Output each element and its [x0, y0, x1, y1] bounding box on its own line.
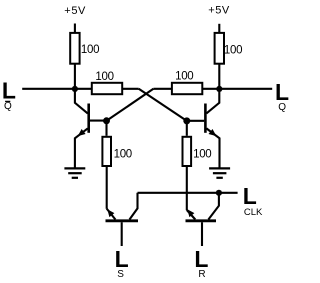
wire Q3 emitter diagonal — [107, 209, 116, 220]
svg-text:100: 100 — [224, 45, 242, 57]
terminal L Q (right output) — [275, 79, 289, 113]
svg-text:100: 100 — [114, 148, 132, 160]
wire Q1 base lead — [90, 120, 107, 122]
wire Q4 collector riser from CLK dot — [208, 193, 219, 220]
svg-text:100: 100 — [95, 71, 113, 83]
wire R6 bottom to Q4 emitter (crosses CLK) — [186, 167, 188, 210]
svg-text:100: 100 — [81, 44, 99, 56]
transistor Q4 emitter arrow — [187, 209, 194, 217]
wire cross-coupling D2 (R4 to node A') — [107, 89, 154, 121]
wire A' to R5 top — [105, 121, 107, 136]
wire Q3 collector riser to CLK — [130, 193, 138, 220]
resistor R4 100 (right horizontal cross-coupling) — [172, 71, 202, 95]
wire R1 bottom lead to node A — [74, 65, 76, 89]
wire Q2 base lead — [187, 120, 205, 122]
transistor Q3 emitter arrow — [107, 209, 114, 217]
svg-text:Q: Q — [278, 102, 286, 113]
svg-text:Q: Q — [4, 101, 12, 112]
svg-text:S: S — [117, 269, 124, 280]
node A' junction dot — [103, 117, 110, 124]
wire R2 bottom lead to node B — [218, 65, 220, 89]
wire Q2 emitter to ground — [206, 128, 219, 167]
resistor R2 100 (top right vertical) — [215, 33, 243, 64]
transistor Q1 emitter arrow — [78, 129, 86, 136]
transistor Q3 base bar (lower left) — [106, 219, 139, 222]
wire Q2 collector — [206, 89, 219, 114]
resistor R6 100 (right middle vertical) — [183, 137, 212, 166]
wire CLK bus — [138, 192, 238, 194]
node CLK junction dot — [216, 190, 222, 196]
wire Q1 emitter to ground — [75, 128, 88, 167]
node A junction dot — [72, 86, 78, 92]
wire Q4 emitter diagonal — [187, 210, 196, 220]
wire +5V lead left — [74, 24, 76, 34]
ground (right) — [209, 168, 230, 177]
resistor R1 100 (top left vertical) — [70, 33, 99, 64]
transistor Q4 base bar (lower right) — [186, 219, 217, 222]
svg-text:R: R — [198, 269, 205, 280]
svg-text:100: 100 — [175, 71, 193, 83]
terminal L R — [194, 246, 208, 280]
node B junction dot — [216, 86, 222, 92]
svg-text:L: L — [115, 246, 129, 272]
svg-text:L: L — [2, 78, 16, 104]
ground (left) — [64, 168, 85, 177]
svg-text:L: L — [243, 183, 257, 209]
svg-text:+5V: +5V — [208, 5, 230, 17]
wire R5 bottom to Q3 emitter — [106, 167, 108, 209]
resistor R3 100 (left horizontal cross-coupling) — [92, 71, 122, 94]
wire right output bus (node B to Q terminal) — [153, 88, 272, 90]
wire cross-coupling D1 (R3 to node B') — [139, 89, 187, 121]
terminal L S — [115, 246, 129, 280]
wire Q1 collector — [75, 89, 88, 114]
wire Q4 base lead to R — [201, 222, 203, 246]
terminal L CLK — [243, 183, 263, 218]
transistor Q2 emitter arrow — [209, 129, 217, 136]
svg-text:L: L — [194, 246, 208, 272]
wire left output bus (Qbar to node A to resistor R3) — [22, 88, 139, 90]
node B' junction dot — [183, 117, 190, 124]
resistor R5 100 (left middle vertical) — [102, 137, 131, 166]
svg-text:100: 100 — [193, 148, 211, 160]
svg-text:+5V: +5V — [64, 5, 86, 17]
terminal L Qbar (left output) — [2, 78, 16, 113]
wire +5V lead right — [218, 24, 220, 33]
svg-text:CLK: CLK — [244, 207, 263, 218]
transistor Q2 base bar (upper right) — [204, 104, 207, 133]
wire Q3 base lead to S — [121, 222, 123, 246]
wire B' to R6 top — [186, 121, 188, 136]
transistor Q1 base bar (upper left) — [87, 104, 90, 133]
